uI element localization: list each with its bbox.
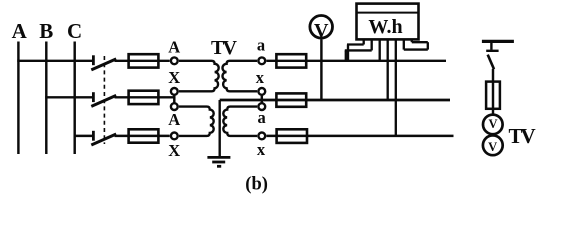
svg-text:V: V	[314, 20, 329, 42]
svg-text:B: B	[39, 19, 53, 43]
svg-text:x: x	[256, 68, 265, 87]
svg-text:A: A	[12, 19, 28, 43]
svg-text:W.h: W.h	[368, 16, 402, 38]
svg-text:TV: TV	[509, 124, 536, 148]
svg-text:A: A	[168, 37, 180, 56]
svg-text:X: X	[168, 141, 180, 160]
svg-text:a: a	[257, 108, 265, 127]
svg-text:(b): (b)	[245, 175, 268, 195]
svg-text:V: V	[488, 140, 497, 154]
svg-text:x: x	[257, 140, 266, 159]
svg-text:A: A	[168, 110, 180, 129]
svg-text:a: a	[257, 36, 265, 55]
svg-text:TV: TV	[211, 37, 238, 59]
svg-text:V: V	[488, 117, 497, 131]
svg-text:X: X	[168, 68, 180, 87]
svg-text:C: C	[67, 19, 82, 43]
